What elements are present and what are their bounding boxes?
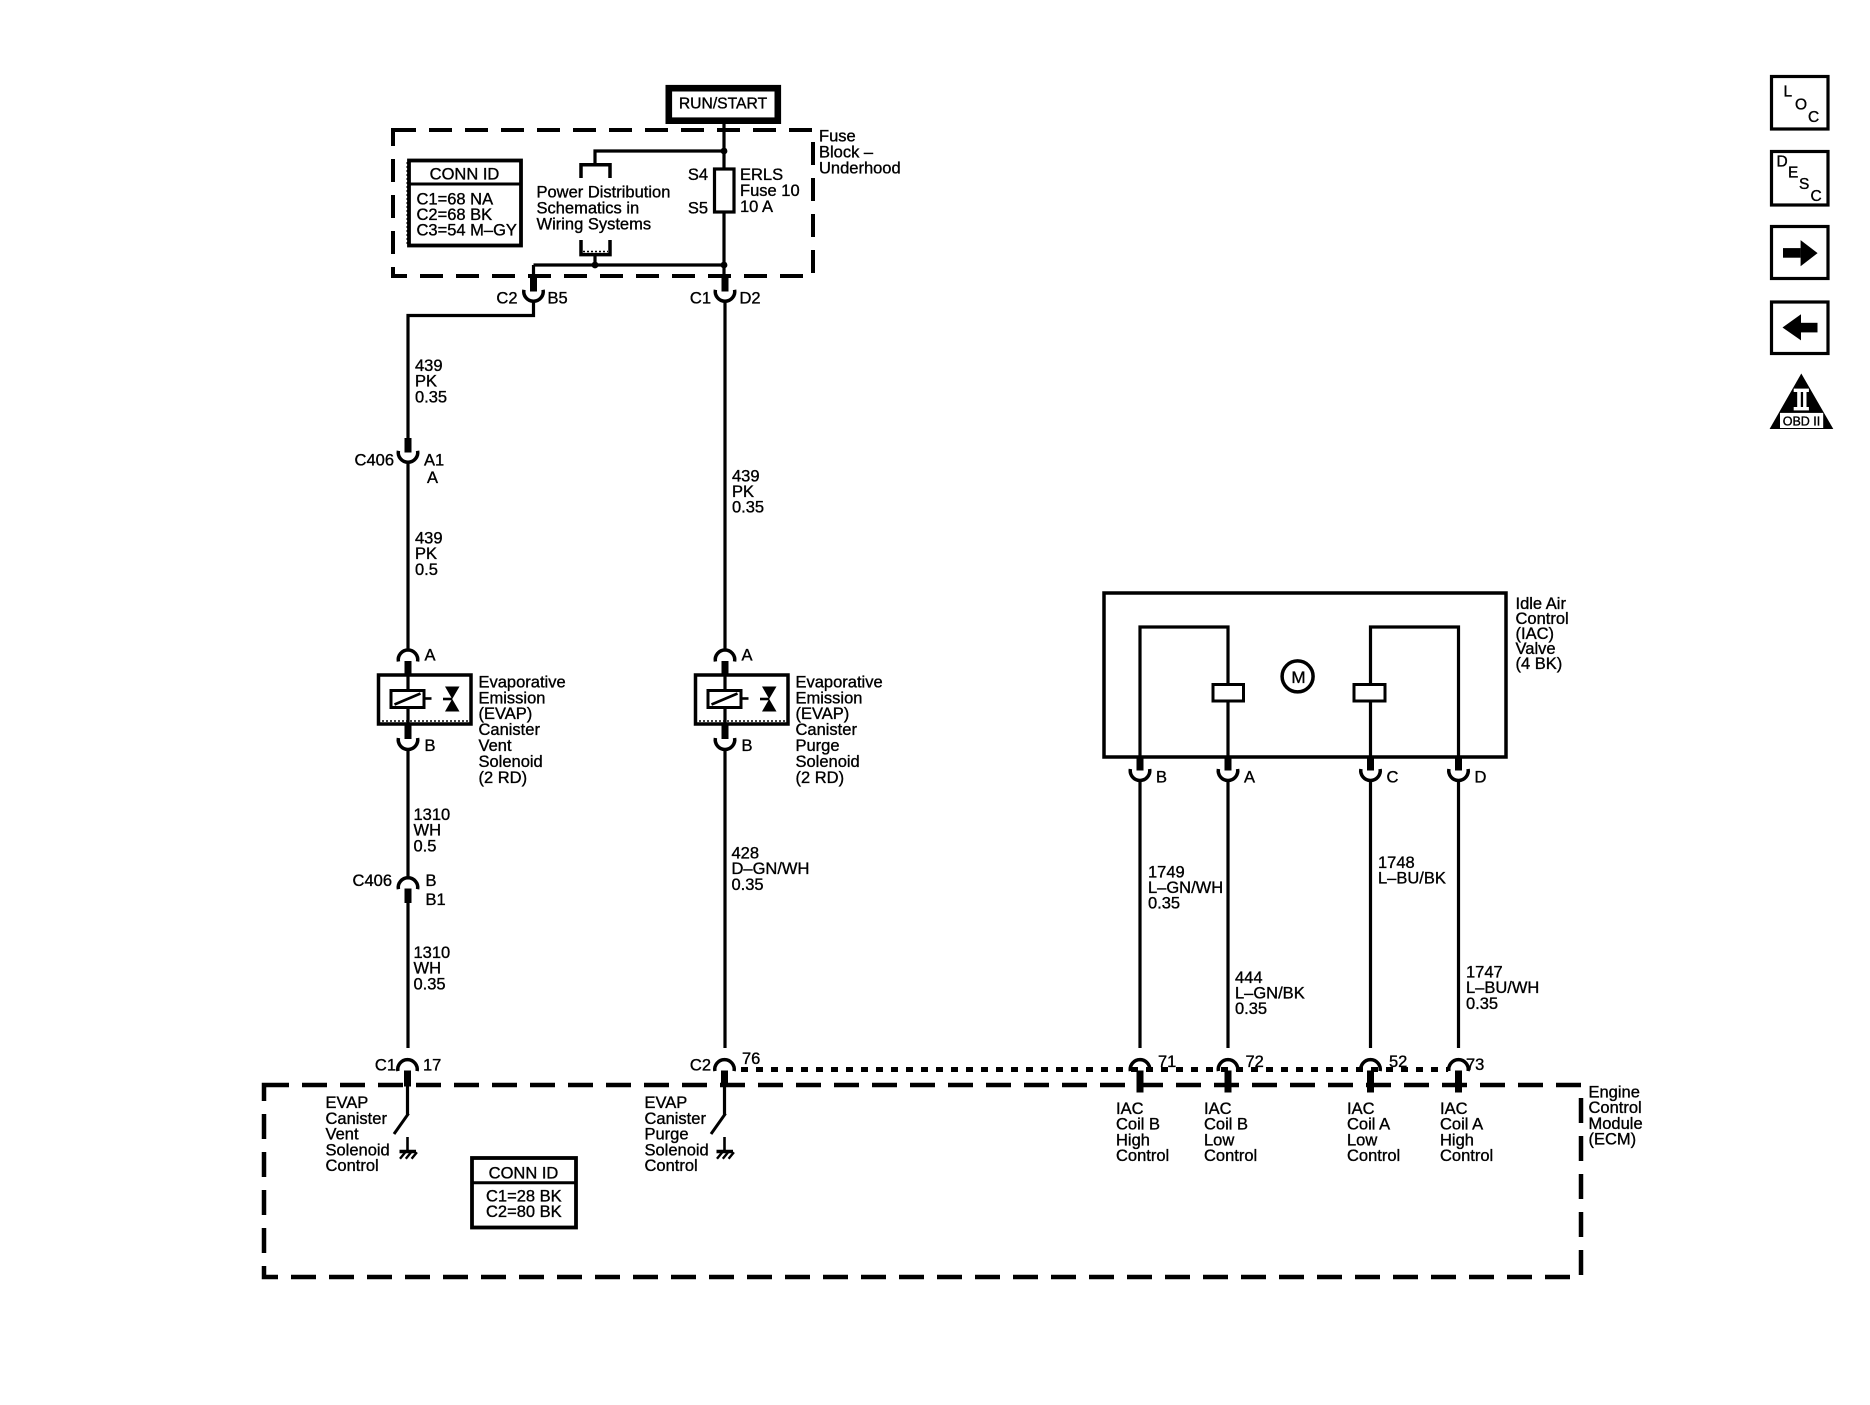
svg-text:B: B: [426, 872, 437, 890]
icon back arrow (sidebar): [1772, 302, 1829, 354]
IAC coil A winding loop: [1371, 627, 1459, 757]
svg-text:Underhood: Underhood: [819, 159, 901, 177]
label Engine Control Module (ECM): [1589, 1084, 1643, 1149]
icon LOC (sidebar): [1772, 77, 1829, 130]
svg-text:C2=80 BK: C2=80 BK: [486, 1203, 562, 1221]
label EVAP Canister Vent Solenoid Control: [326, 1094, 390, 1175]
label circuit 444 L-GN/BK 0.35: [1235, 969, 1305, 1018]
wire stub to connector C1-D2: [722, 265, 725, 278]
svg-text:C2: C2: [690, 1057, 711, 1075]
svg-text:10 A: 10 A: [740, 198, 773, 216]
svg-text:OBD II: OBD II: [1783, 415, 1821, 429]
svg-text:L–BU/BK: L–BU/BK: [1378, 870, 1446, 888]
svg-text:A1: A1: [424, 452, 444, 470]
label IAC Coil B Low Control: [1204, 1100, 1257, 1165]
label IAC Coil A High Control: [1440, 1100, 1493, 1165]
svg-text:17: 17: [423, 1057, 441, 1075]
svg-text:S4: S4: [688, 166, 708, 184]
svg-text:0.35: 0.35: [414, 975, 446, 993]
svg-text:C1: C1: [690, 290, 711, 308]
EVAP canister purge solenoid (2 RD): [696, 675, 789, 724]
svg-text:C406: C406: [355, 452, 394, 470]
svg-text:73: 73: [1466, 1056, 1484, 1074]
wire branch to power distribution: [595, 151, 724, 164]
svg-text:Control: Control: [645, 1157, 698, 1175]
junction at fuse top branch: [721, 148, 728, 155]
label circuit 1749 L-GN/WH 0.35: [1148, 863, 1223, 912]
svg-text:M: M: [1291, 668, 1305, 687]
wire 428 D-GN/WH 0.35: [723, 750, 726, 1049]
svg-text:C: C: [1387, 769, 1399, 787]
connector pin A (IAC): [1218, 757, 1255, 787]
connector C2 pin 76 (ECM): [690, 1050, 760, 1087]
svg-text:Control: Control: [1440, 1147, 1493, 1165]
svg-text:(4 BK): (4 BK): [1516, 655, 1563, 673]
svg-text:A: A: [425, 647, 436, 665]
label circuit 439 PK 0.5: [415, 530, 443, 579]
svg-text:C2: C2: [496, 290, 517, 308]
off-page bracket (top) to Power Distribution: [581, 165, 610, 178]
svg-text:O: O: [1795, 97, 1807, 114]
fuse block dashed enclosure: [393, 130, 813, 276]
ECM driver switch (purge solenoid control): [711, 1087, 726, 1135]
svg-text:Control: Control: [1204, 1147, 1257, 1165]
svg-text:71: 71: [1158, 1053, 1176, 1071]
off-page bracket (bottom) from Power Distribution: [581, 240, 610, 255]
wire stub to connector C2-B5: [532, 265, 535, 278]
wire 1310 WH 0.35: [406, 903, 409, 1048]
svg-text:0.35: 0.35: [732, 876, 764, 894]
connector C1 pin D2 (fuse block output): [690, 277, 761, 308]
label circuit 1747 L-BU/WH 0.35: [1466, 963, 1539, 1012]
connector pin 52 (ECM, IAC coil A low): [1361, 1053, 1408, 1093]
connector pin 72 (ECM, IAC coil B low): [1218, 1053, 1264, 1093]
svg-text:C1: C1: [375, 1057, 396, 1075]
svg-text:CONN ID: CONN ID: [489, 1165, 559, 1183]
svg-text:S5: S5: [688, 200, 708, 218]
connector pin D (IAC): [1449, 757, 1487, 787]
IAC coil A element: [1354, 685, 1385, 702]
EVAP canister vent solenoid (2 RD): [379, 675, 472, 724]
svg-text:D2: D2: [740, 290, 761, 308]
connector pin B (EVAP purge solenoid): [715, 724, 752, 755]
svg-text:CONN ID: CONN ID: [430, 166, 500, 184]
junction at fuse bottom: [721, 262, 728, 269]
note Power Distribution Schematics in Wiring Systems: [537, 184, 671, 234]
connector C2 pin B5 (fuse block output): [496, 277, 567, 308]
label circuit 1310 WH 0.35: [414, 944, 451, 993]
label Evaporative Emission (EVAP) Canister Vent Solenoid (2 RD): [479, 673, 566, 786]
svg-text:B: B: [742, 737, 753, 755]
svg-text:0.35: 0.35: [1466, 995, 1498, 1013]
connector pin 73 (ECM, IAC coil A high): [1449, 1056, 1485, 1093]
connector C2 dotted interconnect line: [741, 1067, 1448, 1072]
svg-text:C406: C406: [353, 872, 392, 890]
label circuit 439 PK 0.35 (left): [415, 357, 447, 406]
svg-text:S: S: [1799, 176, 1809, 193]
label circuit 428 D-GN/WH 0.35: [732, 845, 810, 894]
label Idle Air Control (IAC) Valve (4 BK): [1516, 595, 1569, 673]
engine control module dashed enclosure: [264, 1085, 1581, 1277]
svg-text:Control: Control: [326, 1157, 379, 1175]
wire 439 PK 0.35 (right): [723, 301, 726, 650]
label Evaporative Emission (EVAP) Canister Purge Solenoid (2 RD): [796, 673, 883, 786]
svg-text:B1: B1: [426, 891, 446, 909]
motor M symbol: [1282, 661, 1313, 692]
svg-text:A: A: [1244, 769, 1255, 787]
svg-text:B5: B5: [548, 290, 568, 308]
connector pin A (EVAP purge solenoid): [715, 647, 752, 676]
svg-text:(2 RD): (2 RD): [796, 769, 845, 787]
svg-text:(ECM): (ECM): [1589, 1131, 1637, 1149]
wire from RUN/START to fuse S4: [722, 124, 725, 169]
svg-text:E: E: [1788, 164, 1798, 181]
connector C1 pin 17 (ECM): [375, 1057, 441, 1087]
wire bracket to bus: [593, 256, 596, 265]
connector pin 71 (ECM, IAC coil B high): [1130, 1053, 1176, 1093]
svg-text:Wiring Systems: Wiring Systems: [537, 216, 652, 234]
svg-text:C: C: [1808, 109, 1819, 126]
svg-text:(2 RD): (2 RD): [479, 769, 528, 787]
svg-text:72: 72: [1246, 1053, 1264, 1071]
icon DESC (sidebar): [1772, 152, 1829, 206]
label circuit 439 PK 0.35 (right): [732, 467, 764, 516]
ground (internal ECM, vent driver): [400, 1137, 417, 1159]
connector C406 pin A1-A: [355, 438, 445, 487]
svg-text:L: L: [1784, 84, 1793, 101]
IAC valve (4 BK) enclosure: [1104, 593, 1506, 757]
wire 1748 L-BU/BK: [1369, 780, 1372, 1048]
svg-text:76: 76: [742, 1050, 760, 1068]
ECM driver switch (vent solenoid control): [394, 1087, 409, 1135]
label EVAP Canister Purge Solenoid Control: [645, 1094, 709, 1175]
icon forward arrow (sidebar): [1772, 227, 1829, 279]
label IAC Coil B High Control: [1116, 1100, 1169, 1165]
label Fuse Block - Underhood: [819, 127, 901, 177]
svg-text:B: B: [1156, 769, 1167, 787]
wire C2-B5 to circuit 439 left: [408, 301, 534, 438]
svg-text:0.35: 0.35: [415, 388, 447, 406]
wire 1310 WH 0.5: [406, 750, 409, 879]
wire 444 L-GN/BK 0.35: [1226, 780, 1229, 1048]
svg-text:B: B: [425, 737, 436, 755]
svg-text:0.35: 0.35: [1235, 1000, 1267, 1018]
wire 439 PK 0.5: [406, 462, 409, 650]
wire 1749 L-GN/WH 0.35: [1138, 780, 1141, 1048]
label circuit 1310 WH 0.5: [414, 806, 451, 855]
CONN ID table (ECM): [472, 1158, 576, 1228]
svg-text:RUN/START: RUN/START: [679, 95, 768, 112]
fuse ERLS Fuse 10 10A: [688, 166, 800, 218]
svg-text:C: C: [1811, 188, 1822, 205]
junction at bus left branch: [592, 262, 599, 269]
label circuit 1748 L-BU/BK: [1378, 854, 1446, 888]
svg-text:Control: Control: [1347, 1147, 1400, 1165]
connector pin A (EVAP vent solenoid): [398, 647, 435, 676]
connector pin C (IAC): [1361, 757, 1399, 787]
svg-text:0.5: 0.5: [414, 837, 437, 855]
svg-text:0.35: 0.35: [1148, 895, 1180, 913]
svg-text:52: 52: [1389, 1053, 1407, 1071]
svg-text:A: A: [427, 469, 438, 487]
label IAC Coil A Low Control: [1347, 1100, 1400, 1165]
svg-text:Control: Control: [1116, 1147, 1169, 1165]
svg-text:C3=54 M–GY: C3=54 M–GY: [417, 222, 517, 240]
svg-text:D: D: [1777, 154, 1788, 171]
connector C406 pin B-B1: [353, 872, 446, 909]
wire fuse S5 down to C1: [722, 212, 725, 265]
svg-text:D: D: [1475, 769, 1487, 787]
wire bus inside fuse block: [534, 263, 725, 266]
IAC coil B element: [1213, 685, 1244, 702]
wire 1747 L-BU/WH 0.35: [1457, 780, 1460, 1048]
IAC coil B winding loop: [1140, 627, 1228, 757]
svg-text:0.5: 0.5: [415, 561, 438, 579]
ground (internal ECM, purge driver): [717, 1137, 734, 1159]
connector pin B (EVAP vent solenoid): [398, 724, 435, 755]
node RUN/START (hot in run and start feed): [669, 88, 778, 121]
svg-text:0.35: 0.35: [732, 499, 764, 517]
icon OBD II (sidebar): [1770, 374, 1834, 430]
svg-text:A: A: [742, 647, 753, 665]
connector pin B (IAC): [1130, 757, 1167, 787]
CONN ID table (fuse block): [407, 161, 521, 246]
